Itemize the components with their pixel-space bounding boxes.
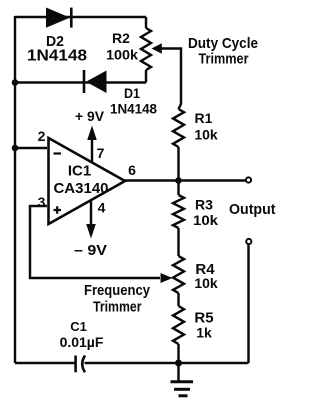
svg-text:Trimmer: Trimmer <box>199 51 249 68</box>
svg-text:100k: 100k <box>106 47 138 63</box>
svg-text:C1: C1 <box>70 319 87 334</box>
svg-text:D1: D1 <box>124 85 140 101</box>
svg-text:10k: 10k <box>194 127 218 143</box>
svg-text:Frequency: Frequency <box>84 282 151 299</box>
svg-text:Duty Cycle: Duty Cycle <box>188 35 258 52</box>
svg-text:1k: 1k <box>196 325 212 341</box>
svg-text:1N4148: 1N4148 <box>27 48 87 65</box>
svg-text:7: 7 <box>97 145 105 161</box>
svg-text:3: 3 <box>38 194 46 210</box>
svg-text:0.01µF: 0.01µF <box>60 334 104 350</box>
svg-text:10k: 10k <box>194 275 218 291</box>
svg-text:2: 2 <box>38 128 46 144</box>
svg-text:R1: R1 <box>195 110 213 126</box>
svg-text:10k: 10k <box>193 212 218 228</box>
svg-text:Output: Output <box>229 202 276 218</box>
svg-text:IC1: IC1 <box>68 163 91 180</box>
svg-text:6: 6 <box>128 162 136 178</box>
svg-text:1N4148: 1N4148 <box>110 101 157 117</box>
svg-text:4: 4 <box>98 200 106 216</box>
svg-text:R2: R2 <box>112 30 130 46</box>
svg-text:– 9V: – 9V <box>74 242 107 259</box>
svg-text:CA3140: CA3140 <box>53 180 108 197</box>
svg-text:+ 9V: + 9V <box>75 108 105 124</box>
svg-text:Trimmer: Trimmer <box>93 299 142 316</box>
svg-text:R3: R3 <box>195 197 213 213</box>
